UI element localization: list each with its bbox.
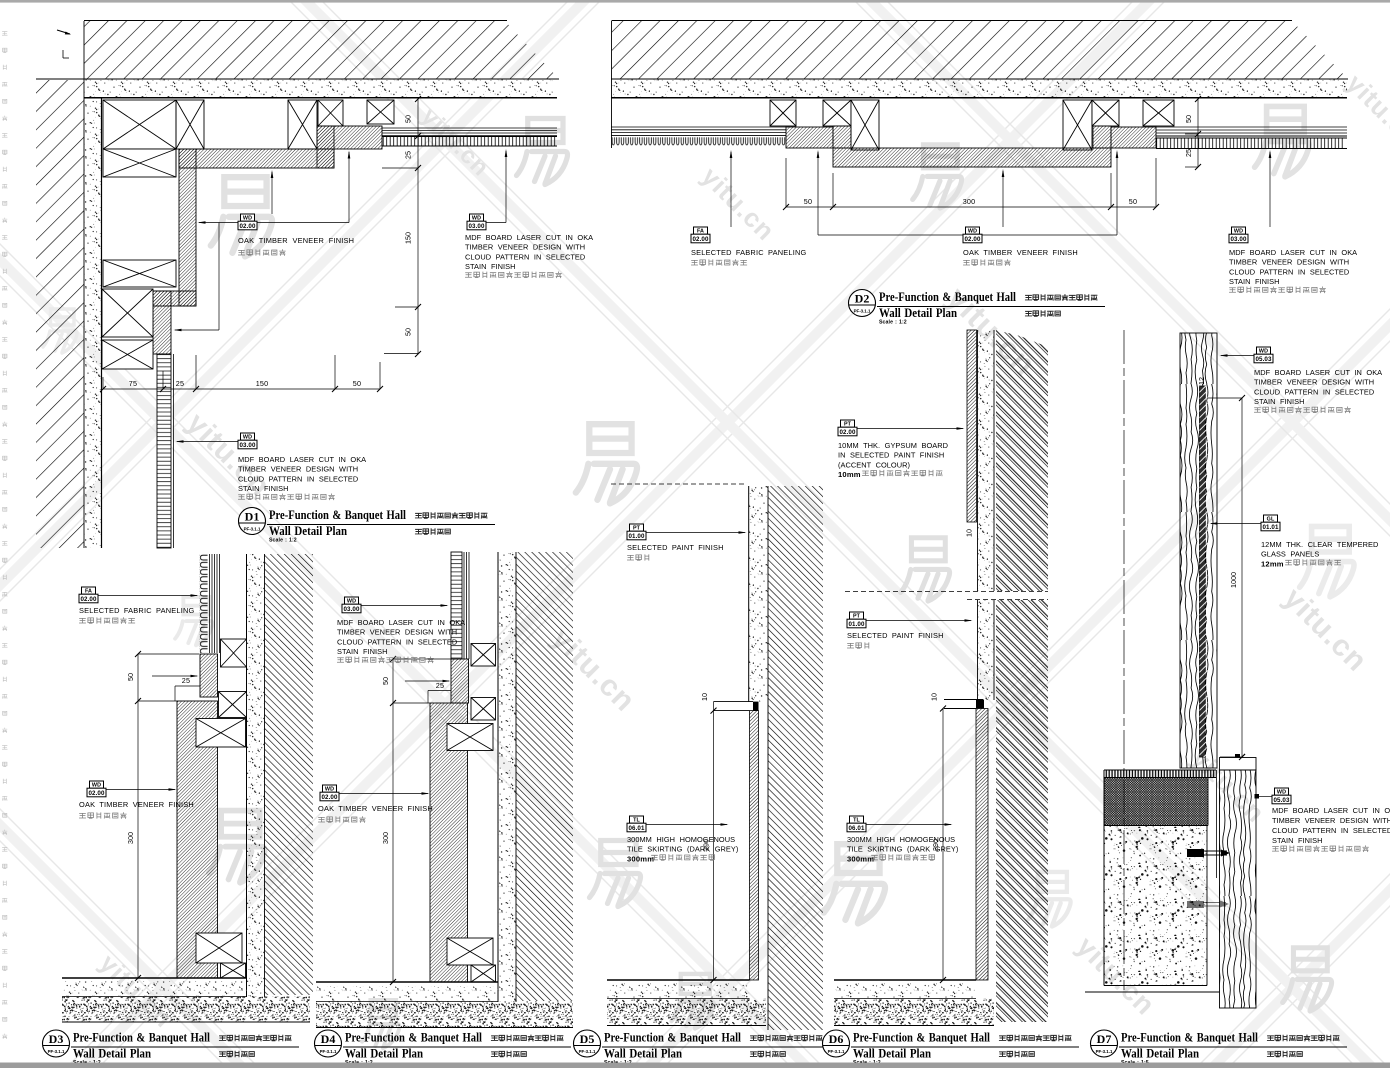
D4 veneer hatch main [430,703,468,982]
D4 blocking box low big [447,938,493,965]
svg-text:02.00: 02.00 [693,236,709,243]
D3 floor speckle band [62,982,247,996]
D2 WD03 leader [1269,152,1271,227]
D1 ceiling line [84,97,557,99]
D4 dim extensions [393,658,451,660]
svg-text:Wall Detail Plan: Wall Detail Plan [604,1047,682,1061]
D1 ceiling board lines [382,127,557,129]
svg-text:PF-3.1.1: PF-3.1.1 [828,1049,845,1054]
D1 bottom dim line [103,388,380,390]
svg-text:D2: D2 [855,292,870,306]
D7 glass panel strip [1200,386,1206,757]
D7 wood grain column lower [1220,770,1257,1008]
D6 TL leader [866,824,951,826]
D2 label FA 02.00 [694,227,708,234]
svg-text:01.00: 01.00 [849,621,865,628]
svg-text:300mm: 300mm [627,854,654,863]
svg-text:02.00: 02.00 [81,596,97,603]
D3 title block [43,1030,70,1057]
svg-text:TIMBER VENEER DESIGN WITH: TIMBER VENEER DESIGN WITH [1229,258,1349,267]
svg-text:PF-3.1.1: PF-3.1.1 [244,527,261,532]
D7 fastener bolt 2 [1187,901,1229,909]
D1 MDF comb band [382,137,557,147]
svg-text:03.00: 03.00 [240,442,256,449]
svg-text:D1: D1 [245,510,260,524]
D7 wood grain column upper [1180,333,1217,768]
svg-text:300MM HIGH HOMOGENOUS: 300MM HIGH HOMOGENOUS [847,835,955,844]
svg-text:03.00: 03.00 [469,223,485,230]
D3 veneer hatch upper [200,654,218,697]
D2 blocking 1 [770,100,796,126]
svg-text:TL: TL [633,818,640,824]
D6 tile skirting strip [976,709,988,981]
D4 veneer hatch upper [451,659,469,703]
svg-text:Wall Detail Plan: Wall Detail Plan [853,1047,931,1061]
D1 WD03 upper leader [486,222,506,224]
svg-text:300: 300 [126,832,135,844]
D5 wall plaster speckle [749,486,768,702]
D2 blocking 2b [851,100,879,150]
D1 left wall hatch [36,80,84,548]
D3 dim line [137,654,139,978]
D1 label WD 03.00 upper [470,214,484,221]
D3 wall hatch [265,554,314,995]
svg-text:02.00: 02.00 [240,223,256,230]
svg-text:CLOUD PATTERN IN SELECTED: CLOUD PATTERN IN SELECTED [1229,267,1349,276]
svg-text:300mm: 300mm [847,854,874,863]
svg-text:MDF BOARD LASER CUT IN OKA: MDF BOARD LASER CUT IN OKA [1229,248,1357,257]
D4 WD02 leader [339,793,428,795]
svg-text:CLOUD PATTERN IN SELECTED: CLOUD PATTERN IN SELECTED [1254,387,1374,396]
D1 WD02 chinese [238,250,285,256]
D3 board lines [209,554,211,653]
svg-text:Pre-Function & Banquet Hall: Pre-Function & Banquet Hall [73,1031,210,1045]
svg-text:Pre-Function & Banquet Hall: Pre-Function & Banquet Hall [604,1031,741,1045]
svg-text:12: 12 [1197,377,1206,385]
D3 fabric loop strip [199,554,208,653]
D1 right dim extensions [404,135,418,137]
svg-text:10MM THK. GYPSUM BOARD: 10MM THK. GYPSUM BOARD [838,441,948,450]
D4 WD03 leader [361,605,447,607]
svg-text:STAIN FINISH: STAIN FINISH [1229,277,1280,286]
D1 MDF slat strip section [157,354,171,548]
D4 label WD 03.00 [345,597,359,604]
svg-text:12MM THK. CLEAR TEMPERED: 12MM THK. CLEAR TEMPERED [1261,540,1378,549]
D4 blocking box big [447,724,493,751]
D6 PT01 leader [866,620,971,622]
svg-text:150: 150 [256,379,269,388]
D4 blocking box low small [471,965,496,982]
svg-text:PT: PT [633,526,641,532]
D2 MDF comb band [1156,138,1345,149]
svg-text:TIMBER VENEER DESIGN WITH: TIMBER VENEER DESIGN WITH [1254,378,1374,387]
D7 centerline [1123,330,1125,990]
D6 wall hatch lower [996,600,1048,1022]
D1 WD03 leader arrow [177,441,238,443]
svg-text:D3: D3 [49,1032,64,1046]
svg-text:10: 10 [965,529,974,537]
svg-text:OAK TIMBER VENEER FINISH: OAK TIMBER VENEER FINISH [963,248,1078,257]
svg-text:STAIN FINISH: STAIN FINISH [1254,397,1305,406]
svg-text:Scale : 1:2: Scale : 1:2 [879,320,907,326]
svg-text:OAK TIMBER VENEER FINISH: OAK TIMBER VENEER FINISH [318,804,433,813]
D4 wall hatch [516,552,573,1001]
svg-text:PF-3.1.1: PF-3.1.1 [48,1049,65,1054]
D2 right cove hatch step [1111,127,1156,148]
D7 counter terrazzo block [1104,826,1207,986]
D1 left wall inner line [83,21,85,548]
svg-text:SELECTED PAINT FINISH: SELECTED PAINT FINISH [627,543,724,552]
D6 label PT 02.00 [841,420,855,427]
svg-text:WD: WD [347,599,356,605]
D5 label TL 06.01 [630,816,644,823]
svg-text:PT: PT [853,614,861,620]
D3 label WD 02.00 [90,781,104,788]
D4 label WD 02.00 [323,785,337,792]
bottom gray bar [0,1063,1390,1069]
D3 blocking box big [196,719,246,748]
svg-text:FA: FA [85,589,92,595]
svg-text:Wall Detail Plan: Wall Detail Plan [345,1047,423,1061]
D2 blocking 4 [1092,100,1119,126]
D1 slab soffit line [36,78,559,80]
D1 title block [239,508,266,535]
svg-text:STAIN FINISH: STAIN FINISH [238,484,289,493]
svg-text:CLOUD PATTERN IN SELECTED: CLOUD PATTERN IN SELECTED [238,474,358,483]
svg-text:MDF BOARD LASER CUT IN OKA: MDF BOARD LASER CUT IN OKA [337,618,465,627]
D1 blocking box F [103,149,176,177]
D3 blocking box low small [221,963,246,978]
D5 PT leader [646,532,745,534]
svg-text:25: 25 [436,681,444,690]
D2 central cove hatch [833,148,1111,167]
D4 dim 25 [428,690,451,692]
D7 dim 1000 line [1241,398,1243,757]
svg-text:Pre-Function & Banquet Hall: Pre-Function & Banquet Hall [345,1031,482,1045]
D2 ceiling line [611,97,1347,99]
D5 floor line [607,979,750,981]
D1 label WD 03.00 [241,433,255,440]
D1 veneer step vertical [153,291,171,354]
D1 label WD 02.00 [241,214,255,221]
svg-text:D4: D4 [321,1032,336,1046]
svg-text:TIMBER VENEER DESIGN WITH: TIMBER VENEER DESIGN WITH [238,465,358,474]
D2 FA leader [730,152,732,227]
svg-text:Pre-Function & Banquet Hall: Pre-Function & Banquet Hall [853,1031,990,1045]
D2 central hatch right corner [1093,126,1111,148]
svg-text:06.01: 06.01 [629,825,645,832]
svg-text:12mm: 12mm [1261,559,1284,568]
svg-text:Pre-Function & Banquet Hall: Pre-Function & Banquet Hall [879,290,1016,304]
svg-text:GL: GL [1267,517,1275,523]
svg-text:25: 25 [404,151,413,159]
svg-text:SELECTED FABRIC PANELING: SELECTED FABRIC PANELING [691,248,806,257]
svg-text:300: 300 [963,197,976,206]
D7 fastener bolt 1 [1187,849,1204,857]
D1 blocking box D [318,100,343,126]
D2 label WD 03.00 [1232,227,1246,234]
svg-text:01.00: 01.00 [629,533,645,540]
D6 skirting black cap [976,700,984,709]
svg-text:50: 50 [404,328,413,336]
svg-text:50: 50 [804,197,812,206]
D1 WD02 leader lower arrow [218,223,220,331]
svg-text:50: 50 [381,677,390,685]
D3 wall plaster speckle [247,554,265,997]
svg-text:MDF BOARD LASER CUT IN OKA: MDF BOARD LASER CUT IN OKA [1272,806,1390,815]
D6 dim line 290 [942,709,944,981]
D4 MDF slat strip [451,552,462,659]
svg-text:Wall Detail Plan: Wall Detail Plan [269,524,347,538]
D4 board lines [463,552,465,659]
D2 right board lines [1156,126,1347,128]
svg-text:STAIN FINISH: STAIN FINISH [337,647,388,656]
D1 cove hatch corner [317,126,334,168]
D2 right dim line [1197,99,1199,167]
D2 left edge line [611,21,613,149]
D5 title block [574,1030,601,1057]
D1 WD02 leader right-up arrow [257,222,349,224]
svg-text:02.00: 02.00 [965,236,981,243]
svg-text:03.00: 03.00 [344,606,360,613]
D2 slab top line [612,20,1292,22]
D7 label WD 05.03 top [1257,347,1271,354]
svg-text:OAK TIMBER VENEER FINISH: OAK TIMBER VENEER FINISH [79,800,194,809]
D1 blocking box H [102,289,153,337]
svg-text:STAIN FINISH: STAIN FINISH [465,262,516,271]
D6 PT02 leader [857,428,963,430]
D3 blocking box low big [196,933,242,963]
D1 bottom dim ticks [100,386,106,392]
svg-text:02.00: 02.00 [89,790,105,797]
svg-text:Wall Detail Plan: Wall Detail Plan [73,1047,151,1061]
D6 wall plaster speckle mid [978,600,995,700]
D6 wall break dashes [845,591,1048,593]
D6 title block [823,1030,850,1057]
D4 wall plaster speckle [498,552,516,1002]
D3 WD02 leader [106,789,175,791]
D1 reference marks [57,30,70,34]
D1 veneer step horizontal [153,291,196,306]
svg-text:D7: D7 [1097,1032,1112,1046]
svg-text:WD: WD [92,783,101,789]
D2 title block [849,290,876,317]
D1 left wall plaster speckle [85,98,102,548]
svg-text:02.00: 02.00 [840,429,856,436]
D2 blocking 5 [1143,100,1174,126]
D7 cap tick [1239,754,1245,760]
D2 left board lines [611,126,786,128]
D5 TL leader [646,824,727,826]
svg-text:D5: D5 [580,1032,595,1046]
top gray bar [0,0,1390,3]
svg-text:25: 25 [176,379,184,388]
D6 floor screed band [834,999,994,1026]
svg-text:Pre-Function & Banquet Hall: Pre-Function & Banquet Hall [269,508,406,522]
D3 floor line [62,977,247,979]
D6 skirting step lines [944,699,983,701]
D5 ceiling dashed line [611,483,746,485]
D3 dim 25 [175,685,200,687]
svg-text:50: 50 [126,673,135,681]
D3 floor screed band [62,997,310,1023]
D7 counter screed block [1104,778,1208,826]
svg-text:SELECTED FABRIC PANELING: SELECTED FABRIC PANELING [79,606,194,615]
svg-text:50: 50 [1129,197,1137,206]
D3 veneer hatch main [177,701,218,978]
svg-text:Scale : 1:2: Scale : 1:2 [269,538,297,544]
D7 grain B top cap [1220,758,1257,771]
D1 bottom dim extensions [102,377,104,389]
svg-text:50: 50 [353,379,361,388]
D2 slab soffit line [611,78,1348,80]
D2 blocking 2a [823,100,851,126]
D2 WD02 right leader [982,234,1117,236]
svg-text:MDF BOARD LASER CUT IN OKA: MDF BOARD LASER CUT IN OKA [465,233,593,242]
D5 tile skirting strip [750,711,759,980]
D4 title block [315,1030,342,1057]
D7 WD low leader [1258,796,1272,798]
svg-text:50: 50 [1184,115,1193,123]
D1 left wall face line [101,98,103,548]
D4 floor screed band [316,1002,573,1028]
svg-text:Wall Detail Plan: Wall Detail Plan [1121,1047,1199,1061]
D1 WD02 leader up arrow [271,172,273,214]
svg-text:PF-3.1.1: PF-3.1.1 [320,1049,337,1054]
D2 dim ticks [783,204,789,210]
svg-text:50: 50 [404,115,413,123]
svg-text:CLOUD PATTERN IN SELECTED: CLOUD PATTERN IN SELECTED [465,252,585,261]
svg-text:MDF BOARD LASER CUT IN OKA: MDF BOARD LASER CUT IN OKA [1254,368,1382,377]
svg-text:PF-3.1.1: PF-3.1.1 [854,309,871,314]
svg-text:75: 75 [129,379,137,388]
D2 label WD 02.00 [966,227,980,234]
D1 veneer vertical band [179,149,196,306]
D5 floor screed band [607,999,766,1026]
D6 floor speckle band [834,984,976,998]
D1 cove hatch horizontal band [179,149,334,168]
svg-text:IN SELECTED PAINT FINISH: IN SELECTED PAINT FINISH [838,451,944,460]
D7 title block [1091,1030,1118,1057]
svg-text:25: 25 [182,676,190,685]
D7 counter comb top [1104,770,1216,778]
D2 left cove hatch step [786,127,833,148]
svg-text:06.01: 06.01 [849,825,865,832]
svg-text:10: 10 [700,693,709,701]
D1 blocking box C [288,100,317,149]
D2 dim extensions [785,158,787,207]
D1 right dim ticks [415,96,421,102]
svg-text:CLOUD PATTERN IN SELECTED: CLOUD PATTERN IN SELECTED [337,637,457,646]
D1 blocking box E [367,100,394,124]
D1 plaster speckle band horizontal [84,80,553,98]
D2 fabric loop band [611,137,786,147]
D7 WD top leader [1221,355,1254,357]
D5 floor speckle band [607,984,750,998]
D2 blocking 3 [1063,100,1092,150]
svg-text:TILE SKIRTING (DARK GREY): TILE SKIRTING (DARK GREY) [627,845,738,854]
svg-text:150: 150 [404,232,413,244]
svg-text:(ACCENT COLOUR): (ACCENT COLOUR) [838,460,910,469]
svg-text:WD: WD [1277,790,1286,796]
D5 skirting black cap [753,702,759,711]
svg-text:MDF BOARD LASER CUT IN OKA: MDF BOARD LASER CUT IN OKA [238,455,366,464]
D6 label TL 06.01 [850,816,864,823]
svg-text:300MM HIGH HOMOGENOUS: 300MM HIGH HOMOGENOUS [627,835,735,844]
svg-text:PF-3.1.1: PF-3.1.1 [579,1049,596,1054]
D2 plaster speckle band [611,80,1347,98]
D4 floor speckle band [316,986,498,1001]
D2 dim chain line [786,206,1156,208]
D3 blocking box 1 [221,639,247,667]
D1 blocking box B [176,100,204,149]
D4 floor line [316,981,498,983]
left edge text column [2,32,7,36]
svg-text:300: 300 [381,832,390,844]
svg-text:SELECTED PAINT FINISH: SELECTED PAINT FINISH [847,631,944,640]
svg-text:01.01: 01.01 [1263,524,1279,531]
D3 dim extensions [138,653,199,655]
D6 wall plaster speckle upper [978,330,995,591]
D4 blocking box 1 [471,644,496,667]
D1 cove hatch upper step [317,126,382,149]
svg-text:Wall Detail Plan: Wall Detail Plan [879,306,957,320]
svg-text:Pre-Function & Banquet Hall: Pre-Function & Banquet Hall [1121,1031,1258,1045]
D3 label FA 02.00 [82,587,96,594]
D1 blocking box A [103,100,176,149]
svg-text:10mm: 10mm [838,470,861,479]
D7 floor line [1085,991,1220,993]
svg-text:GLASS PANELS: GLASS PANELS [1261,550,1319,559]
D1 blocking box G [103,260,176,287]
D1 ceiling slab top line [84,20,507,22]
svg-text:10: 10 [930,693,939,701]
D2 WD02 up leader [1002,171,1004,227]
svg-text:TILE SKIRTING (DARK GREY): TILE SKIRTING (DARK GREY) [847,845,958,854]
svg-text:PF-3.1.1: PF-3.1.1 [1096,1049,1113,1054]
svg-text:D6: D6 [829,1032,844,1046]
svg-text:25: 25 [1184,149,1193,157]
svg-text:03.00: 03.00 [1231,236,1247,243]
D5 skirting step lines [714,701,754,703]
D6 floor line [834,979,976,981]
D2 central hatch left corner [833,126,851,148]
svg-text:TL: TL [853,818,860,824]
svg-text:TIMBER VENEER DESIGN WITH: TIMBER VENEER DESIGN WITH [337,628,457,637]
D6 gypsum board strip [967,330,977,522]
D7 label GL 01.01 [1264,515,1278,522]
svg-text:WD: WD [325,787,334,793]
svg-text:STAIN FINISH: STAIN FINISH [1272,836,1323,845]
D5 dim line 290 [713,702,715,980]
D3 blocking box 2 [219,692,247,718]
D2 WD02 left leader [818,234,963,236]
svg-text:OAK TIMBER VENEER FINISH: OAK TIMBER VENEER FINISH [238,236,354,245]
svg-text:02.00: 02.00 [322,794,338,801]
svg-text:CLOUD PATTERN IN SELECTED: CLOUD PATTERN IN SELECTED [1272,826,1390,835]
svg-text:TIMBER VENEER DESIGN WITH: TIMBER VENEER DESIGN WITH [1272,816,1390,825]
svg-text:TIMBER VENEER DESIGN WITH: TIMBER VENEER DESIGN WITH [465,243,585,252]
D1 blocking box I [102,340,153,369]
D4 dim line [392,659,394,982]
svg-text:05.03: 05.03 [1274,797,1290,804]
D1 right dim line [417,99,419,354]
D5 label PT 01.00 [630,524,644,531]
D7 GL leader [1211,523,1261,525]
svg-text:05.03: 05.03 [1256,356,1272,363]
D4 blocking box 2 [471,698,496,721]
D7 label WD 05.03 low [1275,788,1289,795]
